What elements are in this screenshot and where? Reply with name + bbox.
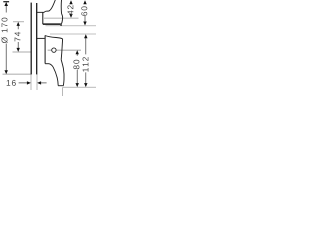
lever tip bottom [58, 85, 63, 87]
collar left edge [42, 12, 44, 24]
extension line plate right down [36, 74, 38, 90]
knob top arc [45, 36, 63, 39]
label 60 [81, 6, 87, 15]
label 42 [67, 5, 73, 15]
label 80 [73, 60, 79, 69]
dimension 60 stem [84, 16, 86, 22]
dimension Ø170 stem [5, 5, 7, 71]
dimension 60 arrow down [83, 22, 86, 26]
lever down left edge [49, 64, 58, 86]
dimension 74 stem [17, 25, 19, 48]
dimension 74 arrow up [17, 22, 20, 26]
label 74 [15, 32, 21, 41]
extension line 74 bottom [13, 51, 32, 53]
dimension 74 arrow down [17, 48, 20, 52]
dimension 16 tail [41, 82, 47, 84]
dimension 42 arrow up [69, 0, 72, 4]
plate right edge [36, 3, 38, 74]
dimension 16 arrow right [27, 81, 31, 84]
knob right edge [61, 39, 62, 60]
lever down right edge [61, 60, 64, 86]
extension line below lever tip [62, 87, 64, 96]
extension line 112 ref [50, 33, 96, 35]
label 112 [83, 57, 89, 72]
extension line plate top tick [3, 1, 9, 3]
extension line 74 top [13, 21, 24, 23]
lever up right edge [60, 0, 63, 24]
dimension 80 arrow up [76, 50, 79, 54]
extension line plate left down [30, 74, 32, 90]
label 16 [7, 80, 16, 86]
knob bottom shelf [45, 63, 49, 65]
dimension Ø170 arrow up [4, 2, 8, 6]
extension line plate bottom [3, 73, 32, 75]
sleeve bottom edge [37, 37, 45, 39]
dimension 42 arrow down [69, 14, 72, 18]
dimension 80 arrow down [76, 83, 79, 87]
dimension 112 arrow up [84, 34, 87, 38]
extension line 60 ref / knob top [46, 25, 97, 27]
sleeve top edge [37, 11, 44, 13]
dimension 16 leader [19, 82, 28, 84]
dimension 80 stem [76, 54, 78, 84]
dimension base line bottom [63, 86, 96, 88]
collar top edge [43, 24, 61, 26]
dimension Ø170 arrow down [5, 70, 8, 74]
knob left edge [44, 35, 46, 63]
centerline through pivot [48, 49, 81, 51]
dimension 60 arrow up [83, 0, 86, 4]
plate left edge [30, 3, 32, 75]
extension line 42 ref [44, 17, 79, 19]
dimension 112 stem [85, 38, 87, 84]
pivot circle [52, 48, 56, 52]
lever up left edge [44, 0, 55, 12]
label Ø 170 [1, 18, 7, 43]
dimension 16 arrow left [37, 81, 41, 84]
dimension 112 arrow down [84, 83, 87, 87]
